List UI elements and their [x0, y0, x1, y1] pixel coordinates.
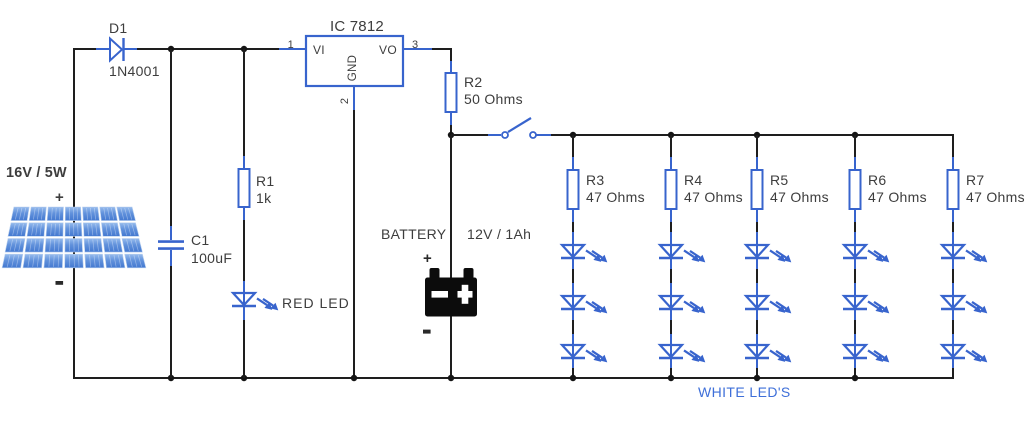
white LED string 2 LED 3: [659, 345, 705, 362]
junction node: LED rail / R6 string: [852, 132, 858, 138]
white LED string 3 LED 2: [745, 296, 791, 313]
wire: top rail, D1 cathode to IC pin 1: [124, 48, 306, 50]
wire: string 2 LED 3 to bottom rail: [670, 358, 672, 378]
svg-text:R5: R5: [770, 172, 789, 188]
wire: C1 branch from top rail to bottom rail: [170, 49, 172, 378]
resistor R4 body: [666, 170, 677, 209]
wire: string 5 LED 2 to LED 3: [952, 309, 954, 345]
svg-text:D1: D1: [109, 20, 128, 36]
junction node: R2 / switch / battery: [448, 132, 454, 138]
svg-text:1: 1: [288, 39, 294, 51]
svg-text:50 Ohms: 50 Ohms: [464, 91, 523, 107]
svg-text:+: +: [423, 250, 432, 267]
wire: string 3 LED 1 to LED 2: [756, 258, 758, 296]
junction node: top rail / R1 branch: [241, 46, 247, 52]
white LED string 2 LED 2: [659, 296, 705, 313]
wire: bottom rail: [73, 377, 954, 379]
wire: string 4 LED 2 to LED 3: [854, 309, 856, 345]
svg-text:47 Ohms: 47 Ohms: [868, 189, 927, 205]
resistor R2 body: [446, 73, 457, 112]
resistor R5 body: [752, 170, 763, 209]
svg-text:1k: 1k: [256, 190, 272, 206]
resistor R7 body: [948, 170, 959, 209]
wire: junction to switch SW1 left contact: [451, 134, 501, 136]
capacitor C1 (100uF): [158, 242, 184, 249]
wire: string 2 LED 1 to LED 2: [670, 258, 672, 296]
svg-text:2: 2: [339, 98, 351, 104]
junction node: bottom rail / string 5: [0, 0, 1, 1]
svg-text:RED LED: RED LED: [282, 295, 350, 311]
wire: string 1 LED 2 to LED 3: [572, 309, 574, 345]
svg-text:1N4001: 1N4001: [109, 63, 160, 79]
junction node: LED rail / R3 string: [570, 132, 576, 138]
white LED string 3 LED 3: [745, 345, 791, 362]
junction node: LED rail / R5 string: [754, 132, 760, 138]
wire: R3 to first LED of string 1: [572, 209, 574, 245]
svg-text:R3: R3: [586, 172, 605, 188]
white LED string 5 LED 2: [941, 296, 987, 313]
junction node: top rail / C1 branch: [168, 46, 174, 52]
wire: string 2 LED 2 to LED 3: [670, 309, 672, 345]
wire: string 3 LED 2 to LED 3: [756, 309, 758, 345]
svg-text:100uF: 100uF: [191, 250, 232, 266]
svg-text:GND: GND: [347, 55, 359, 81]
white LED string 4 LED 2: [843, 296, 889, 313]
wire: right rail down from LED rail to bottom rail: [952, 134, 954, 378]
junction node: bottom rail / IC GND branch: [351, 375, 357, 381]
svg-text:BATTERY: BATTERY: [381, 226, 447, 242]
wire: R7 to first LED of string 5: [952, 209, 954, 245]
wire: LED rail to resistor R6: [854, 135, 856, 170]
wire: IC VO pin 3 to corner above R2: [403, 48, 452, 73]
svg-text:R7: R7: [966, 172, 985, 188]
svg-text:12V / 1Ah: 12V / 1Ah: [467, 226, 531, 242]
svg-text:47 Ohms: 47 Ohms: [966, 189, 1024, 205]
svg-text:C1: C1: [191, 232, 210, 248]
svg-text:R1: R1: [256, 173, 275, 189]
wire: LED rail to resistor R3: [572, 135, 574, 170]
white LED string 1 LED 2: [561, 296, 607, 313]
wire: IC pin 2 (GND) down to bottom rail: [353, 86, 355, 378]
svg-text:47 Ohms: 47 Ohms: [586, 189, 645, 205]
svg-text:R6: R6: [868, 172, 887, 188]
svg-text:WHITE LED'S: WHITE LED'S: [698, 384, 791, 400]
red indicator LED D2: [232, 293, 278, 310]
wire: R1 branch from top rail to R1: [243, 49, 245, 169]
wire: LED rail to resistor R5: [756, 135, 758, 170]
junction node: bottom rail / string 1: [570, 375, 576, 381]
solar panel - terminal mark: [56, 281, 64, 285]
svg-text:R2: R2: [464, 74, 483, 90]
white LED string 1 LED 3: [561, 345, 607, 362]
wire: R2 bottom to switch junction: [450, 112, 452, 135]
svg-text:R4: R4: [684, 172, 703, 188]
wire: string 4 LED 3 to bottom rail: [854, 358, 856, 378]
wire: string 1 LED 1 to LED 2: [572, 258, 574, 296]
svg-text:VI: VI: [313, 43, 325, 57]
junction node: bottom rail / string 4: [852, 375, 858, 381]
white LED string 3 LED 1: [745, 245, 791, 262]
battery - polarity mark: [423, 330, 431, 334]
white LED string 2 LED 1: [659, 245, 705, 262]
wire: string 5 LED 1 to LED 2: [952, 258, 954, 296]
junction node: LED rail / R4 string: [668, 132, 674, 138]
white LED string 1 LED 1: [561, 245, 607, 262]
svg-text:47 Ohms: 47 Ohms: [770, 189, 829, 205]
junction node: bottom rail / C1 branch: [168, 375, 174, 381]
wire: string 5 LED 3 to bottom rail: [952, 358, 954, 378]
wire: left rail from panel/top corner down to bottom rail: [73, 48, 75, 378]
wire: red LED cathode to bottom rail: [243, 306, 245, 378]
wire: R1 to red LED: [243, 207, 245, 293]
solar panel PV1 (16V / 5W): [2, 207, 146, 268]
wire: string 3 LED 3 to bottom rail: [756, 358, 758, 378]
wire: string 4 LED 1 to LED 2: [854, 258, 856, 296]
wire: top rail, panel to diode D1 anode: [73, 48, 109, 50]
white LED string 4 LED 1: [843, 245, 889, 262]
battery B1 icon (12V / 1Ah): [425, 268, 477, 317]
junction node: bottom rail / battery branch: [448, 375, 454, 381]
wire: LED rail to resistor R7: [952, 135, 954, 170]
resistor R6 body: [850, 170, 861, 209]
diode D1 (1N4001): [110, 38, 124, 61]
svg-text:47 Ohms: 47 Ohms: [684, 189, 743, 205]
white LED string 5 LED 1: [941, 245, 987, 262]
resistor R1 body: [239, 169, 250, 207]
svg-text:IC 7812: IC 7812: [330, 18, 384, 35]
wire: R4 to first LED of string 2: [670, 209, 672, 245]
wire: string 1 LED 3 to bottom rail: [572, 358, 574, 378]
svg-text:VO: VO: [379, 43, 397, 57]
wire: LED rail to resistor R4: [670, 135, 672, 170]
voltage regulator U1 IC 7812 body: [306, 36, 403, 86]
wire: R5 to first LED of string 3: [756, 209, 758, 245]
resistor R3 body: [568, 170, 579, 209]
switch SW1 (SPST, shown open): [502, 118, 536, 138]
white LED string 5 LED 3: [941, 345, 987, 362]
svg-text:+: +: [55, 189, 64, 206]
svg-text:16V / 5W: 16V / 5W: [6, 165, 67, 181]
wire: battery branch down to bottom rail: [450, 135, 452, 378]
junction node: bottom rail / R1/red LED branch: [241, 375, 247, 381]
wire: R6 to first LED of string 4: [854, 209, 856, 245]
junction node: bottom rail / string 2: [668, 375, 674, 381]
wire: switch right contact to LED rail: [536, 134, 954, 136]
junction node: bottom rail / string 3: [754, 375, 760, 381]
white LED string 4 LED 3: [843, 345, 889, 362]
